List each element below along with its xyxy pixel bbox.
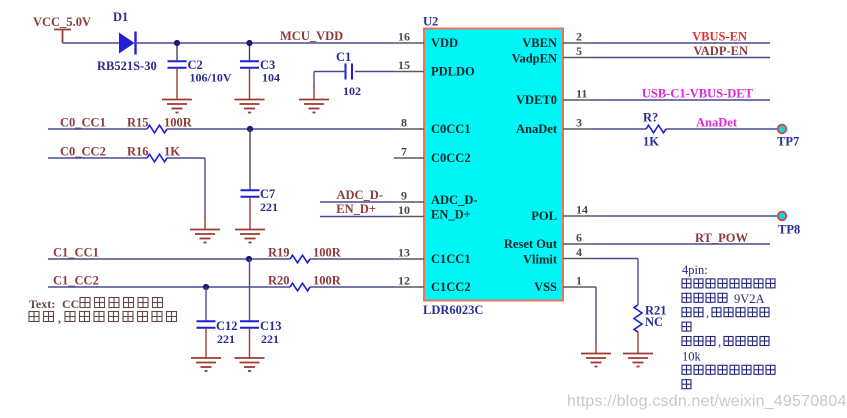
junction C3 / rail xyxy=(246,40,252,46)
wire R16 down xyxy=(204,158,206,218)
wire ADC_D- xyxy=(320,201,394,203)
svg-text:221: 221 xyxy=(260,200,278,214)
pin 3 xyxy=(563,128,593,130)
wire EN_D+ xyxy=(320,216,394,218)
capacitor C3 xyxy=(240,61,259,68)
hanzi line8 xyxy=(682,365,775,374)
svg-text:10k: 10k xyxy=(682,349,702,363)
wire C0_CC1 left xyxy=(48,128,147,130)
wire C0_CC1 right xyxy=(167,128,394,130)
svg-text:9: 9 xyxy=(401,189,407,203)
svg-text:15: 15 xyxy=(398,58,410,72)
svg-text:TP7: TP7 xyxy=(777,135,799,149)
ground R21 xyxy=(623,354,653,367)
ground C13 xyxy=(235,358,265,371)
capacitor C13 xyxy=(240,321,259,328)
ground C7 xyxy=(235,230,265,243)
svg-text:U2: U2 xyxy=(423,15,438,29)
annotation hanzi line2 xyxy=(65,312,177,322)
svg-text:TP8: TP8 xyxy=(778,223,800,237)
wire C7 upper stem xyxy=(249,129,251,191)
svg-text:C0CC1: C0CC1 xyxy=(431,122,471,136)
wire C1 left xyxy=(314,71,346,73)
wire C7 to ground xyxy=(249,197,251,230)
svg-text:AnaDet: AnaDet xyxy=(696,116,738,130)
wire VSS down xyxy=(595,287,597,343)
wire C12 upper stem xyxy=(205,287,207,322)
svg-text:4pin:: 4pin: xyxy=(682,263,708,277)
svg-text:C0_CC2: C0_CC2 xyxy=(60,145,106,159)
svg-text:,: , xyxy=(706,306,709,320)
svg-text:4: 4 xyxy=(576,245,582,259)
svg-text:100R: 100R xyxy=(313,274,342,288)
ground C3 xyxy=(235,100,265,113)
wire C1_CC2 right xyxy=(310,286,394,288)
hanzi line2 xyxy=(682,279,775,288)
ground VSS xyxy=(581,354,611,367)
svg-text:6: 6 xyxy=(576,231,582,245)
hanzi line6b xyxy=(724,337,769,346)
wire VSS to ground xyxy=(595,342,597,354)
svg-text:VSS: VSS xyxy=(534,280,557,294)
capacitor C2 xyxy=(168,61,187,68)
svg-text:C1CC2: C1CC2 xyxy=(431,280,471,294)
wire C1_CC1 left xyxy=(48,258,290,260)
resistor R19 xyxy=(290,255,310,263)
svg-text:1K: 1K xyxy=(643,135,659,149)
pin 14 xyxy=(563,215,593,217)
pin 11 xyxy=(563,99,593,101)
svg-text:VBUS-EN: VBUS-EN xyxy=(692,30,747,44)
svg-text:Vlimit: Vlimit xyxy=(523,253,558,267)
wire pin3 to R? xyxy=(593,128,646,130)
svg-text:7: 7 xyxy=(401,145,407,159)
wire USB-C1-VBUS-DET xyxy=(593,99,770,101)
svg-text:R20: R20 xyxy=(268,274,290,288)
resistor R? xyxy=(646,125,666,133)
svg-text:100R: 100R xyxy=(313,246,342,260)
wire to ground R16 xyxy=(204,217,206,230)
svg-text:C1_CC1: C1_CC1 xyxy=(53,246,99,260)
svg-text:9V2A: 9V2A xyxy=(734,292,765,306)
capacitor C7 xyxy=(241,190,260,197)
svg-text:,: , xyxy=(58,311,61,325)
svg-text:C1_CC2: C1_CC2 xyxy=(53,274,99,288)
svg-text:ADC_D-: ADC_D- xyxy=(336,188,383,202)
pin 16 xyxy=(394,42,424,44)
wire C1 down xyxy=(313,72,315,89)
svg-text:R15: R15 xyxy=(127,116,149,130)
wire VADP-EN xyxy=(593,57,770,59)
svg-text:EN_D+: EN_D+ xyxy=(336,202,376,216)
wire to ground C1 xyxy=(313,87,315,100)
svg-text:221: 221 xyxy=(217,332,235,346)
wire C1 to pin15 xyxy=(355,71,394,73)
svg-text:LDR6023C: LDR6023C xyxy=(423,303,483,317)
svg-text:12: 12 xyxy=(398,274,410,288)
hanzi line6a xyxy=(682,337,715,346)
wire C2 upper stem xyxy=(176,43,178,61)
svg-text:VadpEN: VadpEN xyxy=(512,52,557,66)
pin 8 xyxy=(394,128,424,130)
svg-text:EN_D+: EN_D+ xyxy=(431,208,471,222)
svg-text:8: 8 xyxy=(401,116,407,130)
diode D1 RB521S-30 xyxy=(119,33,135,54)
svg-text:D1: D1 xyxy=(113,10,128,24)
wire C1_CC2 left xyxy=(48,286,290,288)
svg-text:POL: POL xyxy=(531,209,557,223)
ground R16 net xyxy=(190,230,220,243)
junction C7 / C0_CC1 xyxy=(247,126,253,132)
wire C13 to ground xyxy=(249,328,251,358)
junction C13 / C1_CC1 xyxy=(246,256,252,262)
svg-text:16: 16 xyxy=(398,30,410,44)
svg-text:221: 221 xyxy=(261,332,279,346)
svg-text:AnaDet: AnaDet xyxy=(516,122,558,136)
svg-text:NC: NC xyxy=(645,315,663,329)
ground C1 xyxy=(299,100,329,113)
pin 12 xyxy=(394,286,424,288)
svg-text:13: 13 xyxy=(398,246,410,260)
test point TP8 xyxy=(778,212,787,221)
wire VBUS-EN xyxy=(593,42,770,44)
svg-text:Reset Out: Reset Out xyxy=(504,237,558,251)
svg-text:R16: R16 xyxy=(127,145,149,159)
IC U2 LDR6023C body xyxy=(424,29,563,301)
wire C0_CC2 right xyxy=(167,157,205,159)
ground C12 xyxy=(191,358,221,371)
wire RT_POW xyxy=(593,243,770,245)
svg-text:VCC_5.0V: VCC_5.0V xyxy=(33,15,91,29)
ground C2 xyxy=(162,100,192,113)
wire C3 to ground xyxy=(249,68,251,100)
svg-text:R?: R? xyxy=(643,111,658,125)
wire C2 to ground xyxy=(176,68,178,100)
svg-text:1: 1 xyxy=(576,274,582,288)
capacitor C1 xyxy=(346,64,353,80)
wire MCU_VDD rail xyxy=(136,42,395,44)
resistor R21 xyxy=(634,305,642,332)
svg-text:2: 2 xyxy=(576,30,582,44)
wire VCC to D1 anode xyxy=(63,42,120,44)
svg-text:ADC_D-: ADC_D- xyxy=(431,193,478,207)
resistor R20 xyxy=(290,283,310,291)
svg-text:C7: C7 xyxy=(260,187,275,201)
svg-text:C12: C12 xyxy=(216,319,238,333)
svg-text:PDLDO: PDLDO xyxy=(431,65,475,79)
svg-text:3: 3 xyxy=(576,116,582,130)
test point TP7 xyxy=(778,125,787,134)
svg-text:,: , xyxy=(718,335,721,349)
wire Vlimit down to R21 xyxy=(637,259,639,306)
wire Vlimit right xyxy=(593,258,638,260)
svg-text:14: 14 xyxy=(576,203,588,217)
svg-text:VBEN: VBEN xyxy=(522,36,557,50)
svg-text:Text:: Text: xyxy=(29,297,55,311)
svg-text:RT_POW: RT_POW xyxy=(695,231,749,245)
wire VSS right xyxy=(593,286,596,288)
wire C1_CC1 right xyxy=(310,258,394,260)
resistor R15 xyxy=(147,125,167,133)
pin 2 xyxy=(563,42,593,44)
hanzi line4b xyxy=(712,308,769,317)
pin 7 xyxy=(394,157,424,159)
svg-text:RB521S-30: RB521S-30 xyxy=(97,59,157,73)
svg-text:CC: CC xyxy=(62,297,79,311)
wire POL to TP8 xyxy=(593,215,777,217)
svg-text:VDET0: VDET0 xyxy=(516,93,557,107)
capacitor C12 xyxy=(197,321,216,328)
wire C0_CC2 left xyxy=(48,157,147,159)
power flag VCC_5.0V xyxy=(54,30,71,44)
wire R? to TP7 xyxy=(666,128,777,130)
wire C12 to ground xyxy=(205,328,207,358)
pin 5 xyxy=(563,57,593,59)
svg-text:MCU_VDD: MCU_VDD xyxy=(280,29,343,43)
svg-text:1K: 1K xyxy=(164,145,180,159)
svg-text:C1CC1: C1CC1 xyxy=(431,252,471,266)
svg-text:11: 11 xyxy=(576,87,587,101)
svg-text:USB-C1-VBUS-DET: USB-C1-VBUS-DET xyxy=(642,87,754,101)
svg-text:5: 5 xyxy=(576,44,582,58)
pin 9 xyxy=(394,201,424,203)
svg-text:104: 104 xyxy=(262,71,280,85)
svg-text:C13: C13 xyxy=(260,319,282,333)
hanzi line9 xyxy=(682,380,691,389)
hanzi line3a xyxy=(682,293,727,302)
svg-text:106/10V: 106/10V xyxy=(190,71,232,85)
pin 6 xyxy=(563,243,593,245)
hanzi line4a xyxy=(682,308,703,317)
pin 13 xyxy=(394,258,424,260)
svg-text:VADP-EN: VADP-EN xyxy=(693,44,748,58)
wire C13 upper stem xyxy=(249,259,251,322)
junction C2 / rail xyxy=(174,40,180,46)
svg-text:C0_CC1: C0_CC1 xyxy=(60,116,106,130)
svg-text:100R: 100R xyxy=(164,116,193,130)
resistor R16 xyxy=(147,154,167,162)
svg-text:https://blog.csdn.net/weixin_4: https://blog.csdn.net/weixin_49570804 xyxy=(567,393,847,410)
svg-text:102: 102 xyxy=(343,84,361,98)
junction C12 / C1_CC2 xyxy=(203,284,209,290)
pin 15 xyxy=(394,71,424,73)
svg-text:C1: C1 xyxy=(336,50,351,64)
svg-text:VDD: VDD xyxy=(431,36,458,50)
annotation hanzi line2 start xyxy=(29,312,54,322)
pin 4 xyxy=(563,258,593,260)
hanzi line5 xyxy=(682,322,691,331)
svg-text:10: 10 xyxy=(398,203,410,217)
wire R21 to ground xyxy=(637,332,639,354)
svg-text:C0CC2: C0CC2 xyxy=(431,151,471,165)
annotation hanzi line1 xyxy=(80,298,163,308)
pin 1 xyxy=(563,286,593,288)
wire C3 upper stem xyxy=(249,43,251,61)
pin 10 xyxy=(394,216,424,218)
svg-text:R19: R19 xyxy=(268,246,290,260)
